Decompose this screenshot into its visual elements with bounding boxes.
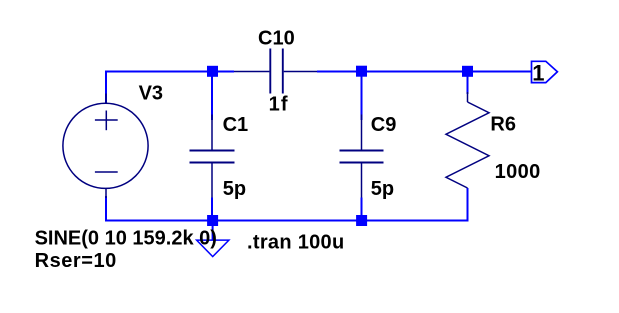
node junction (R6 top) xyxy=(462,66,473,77)
svg-text:C1: C1 xyxy=(223,114,249,136)
node junction (C1 top) xyxy=(207,66,218,77)
svg-text:1: 1 xyxy=(532,60,544,85)
svg-text:5p: 5p xyxy=(223,178,246,200)
svg-text:R6: R6 xyxy=(490,114,516,136)
wire top rail right (C10 right lead to port) xyxy=(317,71,532,73)
voltage source V3 xyxy=(63,94,148,199)
wire ground stub xyxy=(212,221,214,240)
node junction (C9 bottom) xyxy=(356,215,367,226)
wire top rail left (V3 top to C10 left lead) xyxy=(106,72,234,105)
ground xyxy=(197,240,229,257)
resistor R6 xyxy=(446,92,489,188)
svg-text:C10: C10 xyxy=(258,28,295,50)
svg-text:1000: 1000 xyxy=(495,161,541,183)
svg-text:5p: 5p xyxy=(371,178,394,200)
wire R6 top xyxy=(467,72,469,95)
node junction (C9 top) xyxy=(356,66,367,77)
svg-text:SINE(0 10 159.2k 0): SINE(0 10 159.2k 0) xyxy=(35,228,217,250)
svg-text:V3: V3 xyxy=(139,83,163,105)
capacitor C9 xyxy=(340,115,384,198)
port flag 1 xyxy=(532,61,558,82)
wire C9 vertical xyxy=(361,72,363,121)
svg-text:Rser=10: Rser=10 xyxy=(35,250,117,272)
capacitor C10 xyxy=(234,49,317,94)
wire C1 vertical xyxy=(211,72,213,121)
node junction (C1 bottom) xyxy=(207,215,218,226)
svg-text:C9: C9 xyxy=(371,114,397,136)
svg-text:1f: 1f xyxy=(269,94,289,116)
wire bottom rail (R6 bottom to V3 bottom) xyxy=(106,188,468,221)
svg-text:.tran 100u: .tran 100u xyxy=(247,231,344,253)
capacitor C1 xyxy=(190,115,235,198)
